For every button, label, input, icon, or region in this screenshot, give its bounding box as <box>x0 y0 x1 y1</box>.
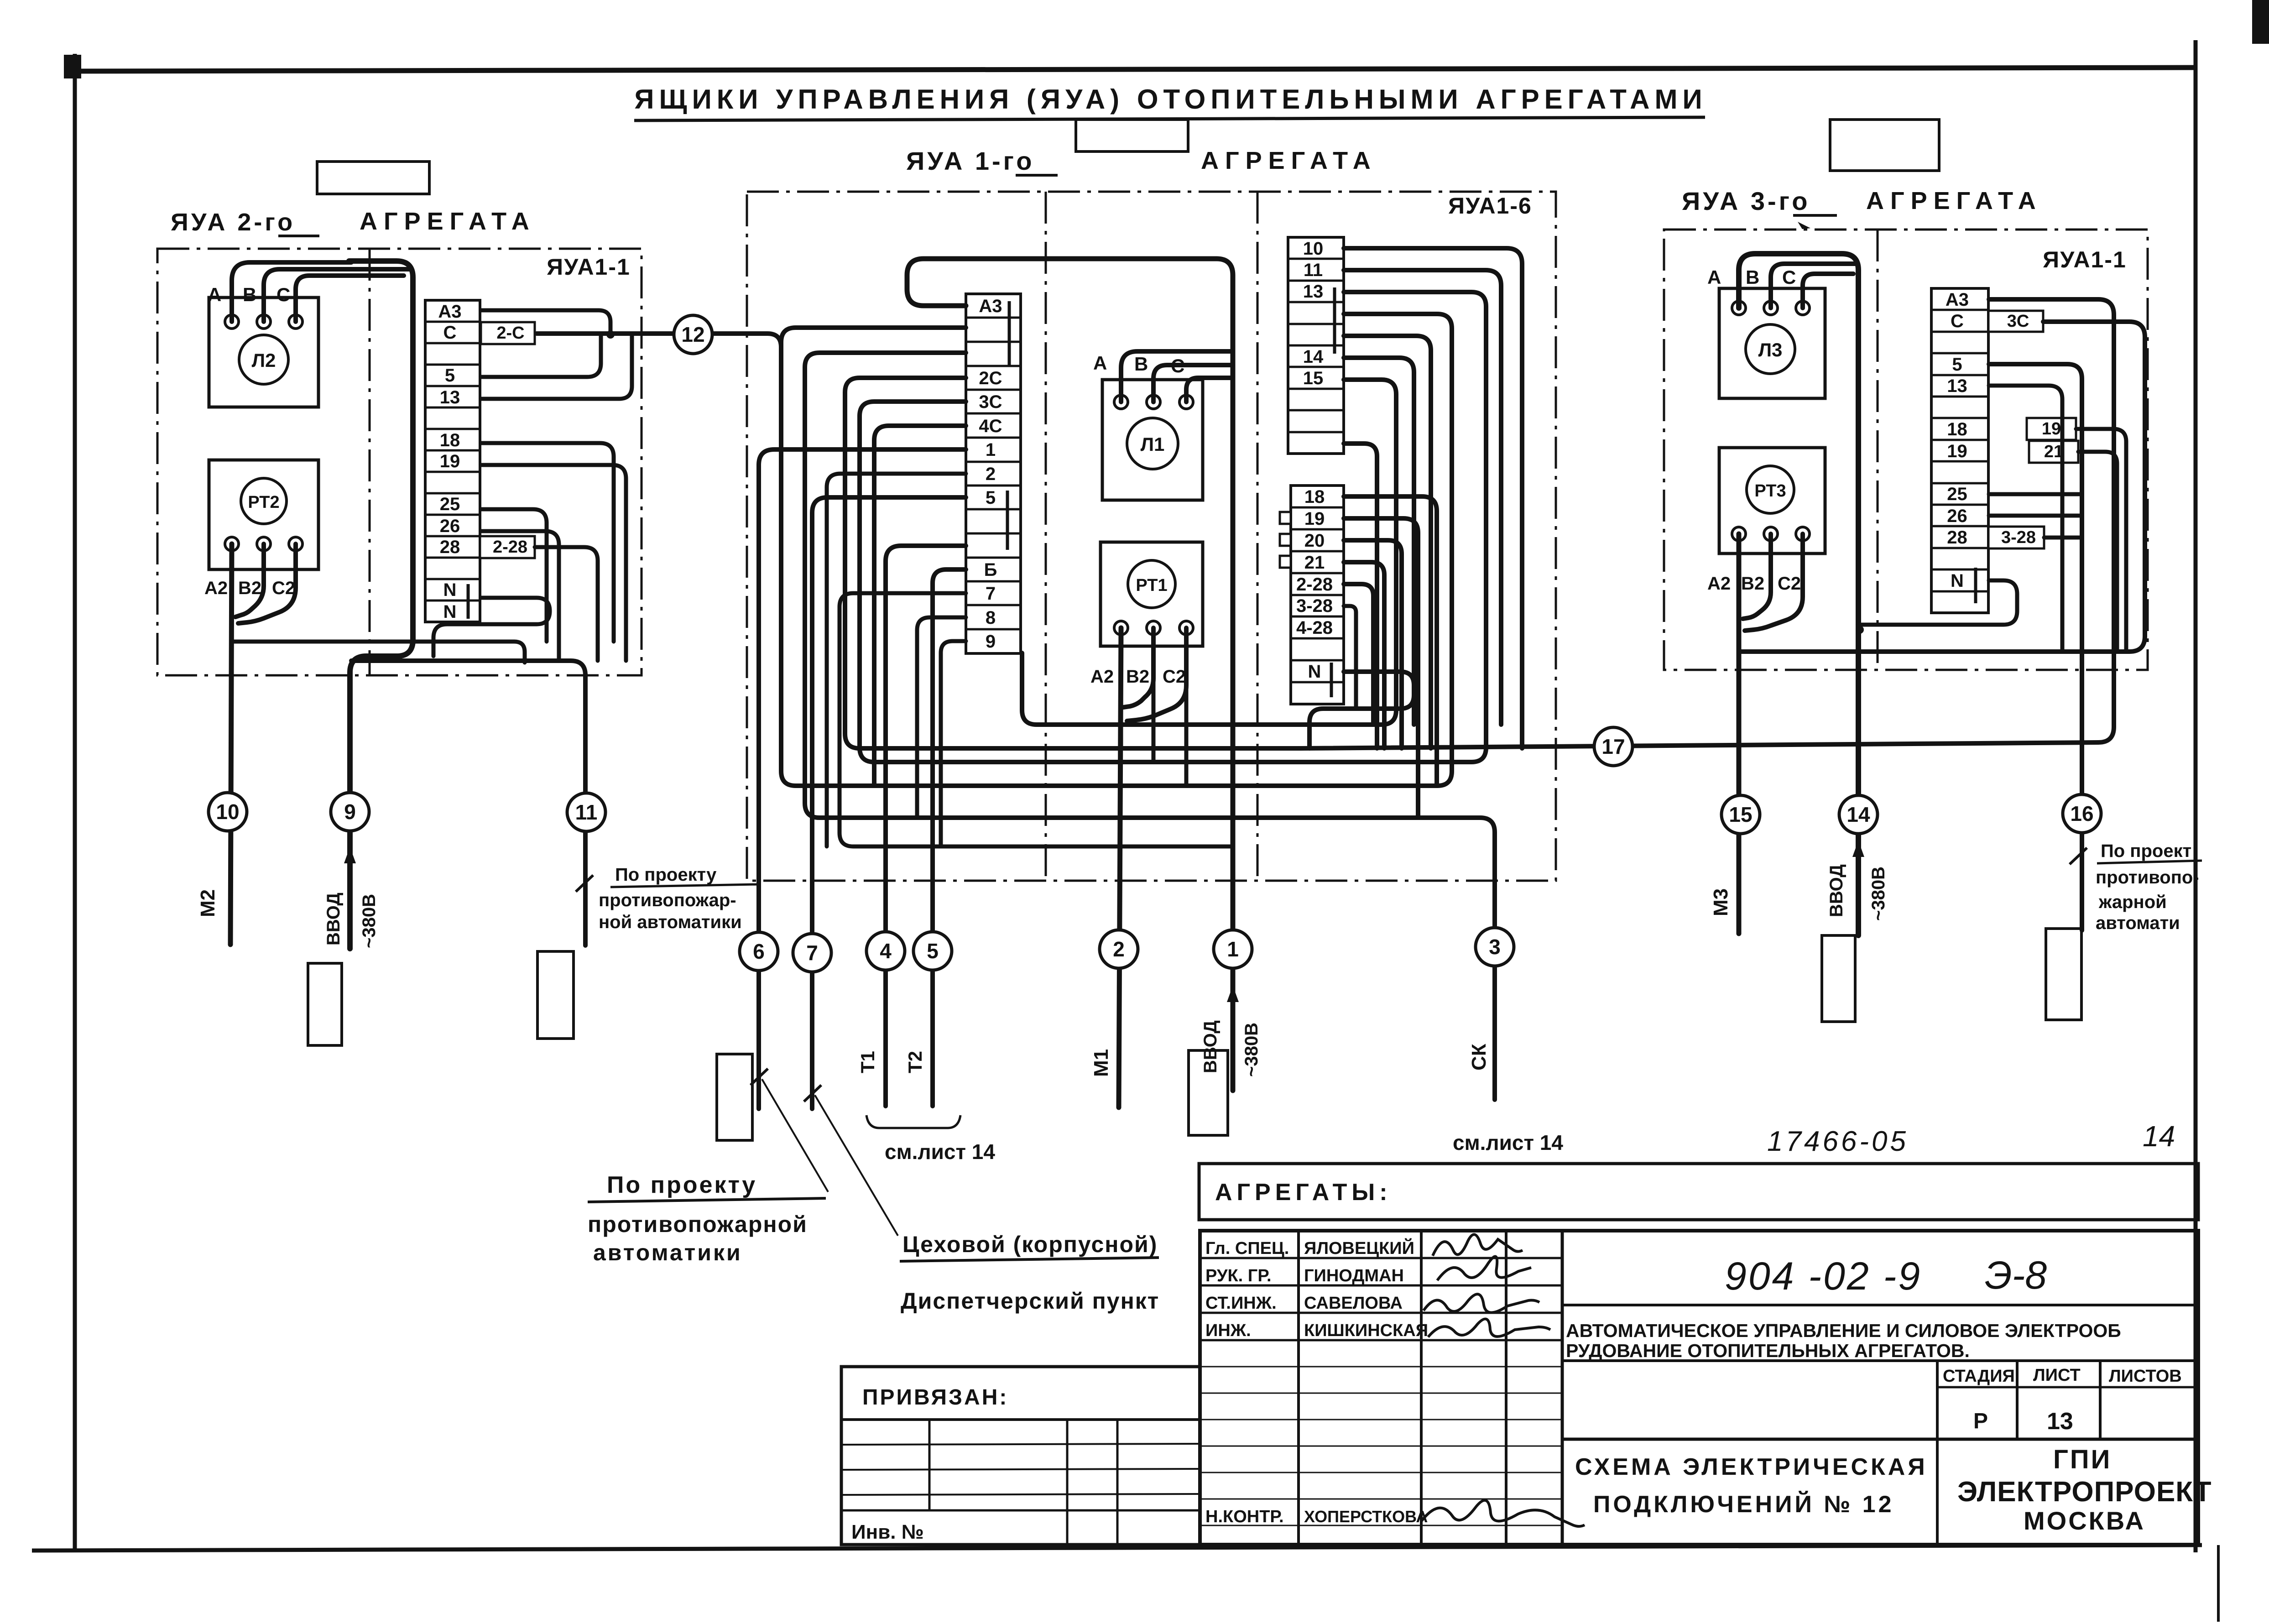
break mark on cable 6 <box>751 1069 768 1085</box>
svg-text:ЯУА 2-го: ЯУА 2-го <box>171 209 295 236</box>
svg-text:18: 18 <box>1304 487 1325 507</box>
title block thin row line 6 <box>1200 1499 1562 1500</box>
stadia header underline <box>1937 1386 2198 1389</box>
svg-text:17: 17 <box>1601 735 1625 758</box>
title block vline names <box>1420 1231 1423 1545</box>
pin A of Л1 <box>1114 395 1128 409</box>
contactor Л3 symbol <box>1746 324 1795 374</box>
svg-text:С: С <box>443 323 457 343</box>
svg-text:ХОПЕРСТКОВА: ХОПЕРСТКОВА <box>1304 1507 1428 1526</box>
note bottom-left underline <box>588 1198 826 1202</box>
underline го (left) <box>278 235 319 237</box>
title block hline 3 <box>1562 1438 2198 1441</box>
wire row 20 down to bus 17 <box>1344 540 1402 748</box>
svg-text:28: 28 <box>440 537 460 557</box>
svg-text:С: С <box>1782 266 1796 288</box>
break mark on cable 16 <box>2070 848 2087 864</box>
wire row 19 down to bus H3 <box>1344 518 1418 818</box>
svg-text:ЛИСТ: ЛИСТ <box>2033 1366 2081 1385</box>
title block thin row line 2 <box>1200 1393 1562 1394</box>
wire row 11 down to bus 1588 <box>1344 270 1501 725</box>
wire bus H3: middle row 3 down, right, into cable 3 <box>805 353 1495 1100</box>
svg-text:N: N <box>1308 662 1321 682</box>
wire 21 box down to bus 1428 <box>2078 452 2117 652</box>
svg-text:9: 9 <box>344 800 356 824</box>
wire riser to РТ1 pin B2 from bus y1670 <box>1152 680 1156 762</box>
svg-text:26: 26 <box>1947 506 1967 526</box>
svg-text:5: 5 <box>445 366 455 386</box>
title block outer <box>1200 1231 2198 1545</box>
title block thin row line 7 <box>1200 1525 1562 1526</box>
signature 1 <box>1433 1234 1523 1256</box>
wire left row 13 up to cable 12 line <box>481 336 632 399</box>
svg-text:А: А <box>1093 352 1107 374</box>
svg-text:В2: В2 <box>1126 667 1149 687</box>
title block thin row line 4 <box>1200 1446 1562 1447</box>
wire row 2-28 down to bus 1588 <box>1344 584 1373 725</box>
svg-text:6: 6 <box>753 940 765 963</box>
svg-text:12: 12 <box>681 323 704 346</box>
pin C of Л3 <box>1796 301 1810 315</box>
ПРИВЯЗАН vline 1 <box>928 1420 931 1510</box>
pin B2 of РТ1 <box>1147 621 1160 635</box>
svg-text:ЭЛЕКТРОПРОЕКТ: ЭЛЕКТРОПРОЕКТ <box>1957 1476 2212 1508</box>
svg-text:2-28: 2-28 <box>493 538 527 557</box>
svg-text:26: 26 <box>440 516 460 536</box>
relay РТ1 symbol <box>1128 560 1175 608</box>
svg-text:3-28: 3-28 <box>2001 528 2036 547</box>
svg-text:14: 14 <box>2143 1120 2175 1153</box>
wire Л3 pin C to supply bus <box>1803 274 1853 308</box>
feed arrow cable 14 <box>1852 841 1864 857</box>
svg-text:Диспетчерский пункт: Диспетчерский пункт <box>901 1288 1159 1314</box>
pin A2 of РТ3 <box>1732 527 1746 541</box>
pin B of Л2 <box>257 315 271 329</box>
pin C of Л2 <box>289 315 303 329</box>
wire riser to РТ1 pin A2 from bus 17 <box>1119 680 1123 748</box>
thermal relay РТ1 box <box>1101 542 1203 646</box>
svg-text:Инв. №: Инв. № <box>851 1521 924 1543</box>
svg-text:N: N <box>443 580 457 600</box>
cable marker 6 <box>740 932 778 971</box>
wire row 18 down to bus H2 <box>1344 496 1437 786</box>
wire left row 25 down to bus y1406 <box>481 509 547 642</box>
cable marker 10 <box>209 793 247 831</box>
wire 2-28 box down to bus y1448 <box>535 547 598 661</box>
wire right N row to cable 14 riser <box>1858 580 2017 625</box>
svg-text:8: 8 <box>986 608 996 628</box>
stamp placeholder 6 <box>2046 929 2081 1020</box>
underline го (right) <box>1793 214 1837 217</box>
pin B2 of РТ2 <box>257 537 271 551</box>
pin A2 of РТ2 <box>225 537 239 551</box>
svg-text:13: 13 <box>2047 1408 2073 1435</box>
svg-text:5: 5 <box>1952 355 1962 375</box>
svg-text:~380В: ~380В <box>1241 1023 1262 1077</box>
svg-text:ГПИ: ГПИ <box>2053 1445 2112 1474</box>
svg-text:11: 11 <box>575 800 598 824</box>
wire left row 5 up to cable 12 line <box>481 334 601 377</box>
title block name row line 3 <box>1200 1312 1562 1314</box>
svg-text:противопо-: противопо- <box>2096 867 2199 888</box>
scan blob top-right corner <box>2252 0 2269 44</box>
pin A of Л2 <box>225 315 239 329</box>
frame bottom border <box>32 1545 2202 1551</box>
title block name row line 1 <box>1200 1257 1562 1259</box>
wire Л1 pin B stem to bundle <box>1153 365 1233 402</box>
contact bump row 21 <box>1280 556 1291 568</box>
svg-text:ЯЩИКИ УПРАВЛЕНИЯ (ЯУА) ОТОП: ЯЩИКИ УПРАВЛЕНИЯ (ЯУА) ОТОПИТЕЛЬНЫМИ АГР… <box>634 84 1707 115</box>
wire РТ3 pin A2 down to cable 15 <box>1737 534 1742 934</box>
wire А3 top loop feeding vertical to cable 1 <box>907 259 1233 1091</box>
stamp placeholder 1 <box>308 963 342 1045</box>
svg-text:ЛИСТОВ: ЛИСТОВ <box>2109 1367 2182 1386</box>
cable marker 5 <box>913 932 952 970</box>
wire right row 13 down to bus 1428 <box>1989 386 2062 652</box>
wire РТ2 pin A2 down to cable 10 <box>230 544 232 945</box>
pin A of Л3 <box>1732 301 1746 315</box>
svg-text:2: 2 <box>986 464 996 484</box>
junction dot N/14 <box>1856 626 1864 634</box>
stadia vline 2 <box>2099 1361 2102 1439</box>
svg-text:N: N <box>443 602 457 622</box>
svg-text:СК: СК <box>1468 1044 1490 1070</box>
empty label box right <box>1830 120 1939 171</box>
left cabinet divider (chain) <box>369 249 371 675</box>
svg-text:АГРЕГАТА: АГРЕГАТА <box>1201 147 1377 174</box>
svg-text:автомати: автомати <box>2096 913 2180 933</box>
pin C2 of РТ3 <box>1796 527 1810 541</box>
middle divider 1 (chain) <box>1045 192 1047 881</box>
svg-text:СТ.ИНЖ.: СТ.ИНЖ. <box>1205 1294 1277 1313</box>
note cable 16 underline <box>2097 861 2202 863</box>
tick mark N row (left strip) <box>467 584 470 619</box>
signature 2 <box>1437 1257 1531 1280</box>
svg-text:САВЕЛОВА: САВЕЛОВА <box>1304 1294 1403 1313</box>
svg-text:7: 7 <box>986 584 996 604</box>
svg-text:см.лист 14: см.лист 14 <box>885 1140 995 1164</box>
svg-text:15: 15 <box>1729 803 1752 826</box>
svg-text:25: 25 <box>1947 484 1967 504</box>
wire Л1 pin A stem to bundle <box>1121 351 1233 402</box>
empty label box left <box>317 162 429 194</box>
svg-text:ЯУА1-6: ЯУА1-6 <box>1448 193 1532 219</box>
pin A2 of РТ1 <box>1114 621 1128 635</box>
title block hline 2 <box>1562 1359 2198 1362</box>
svg-text:Э-8: Э-8 <box>1985 1253 2047 1297</box>
svg-text:В: В <box>1746 266 1759 288</box>
svg-text:КИШКИНСКАЯ: КИШКИНСКАЯ <box>1304 1321 1428 1340</box>
svg-text:13: 13 <box>1303 282 1324 302</box>
svg-text:По проекту: По проекту <box>615 865 717 885</box>
cable marker 14 <box>1839 795 1878 834</box>
wire middle row down to cable 4 <box>886 546 966 1106</box>
contactor Л2 box <box>209 298 318 407</box>
wire riser to РТ1 pin C2 from bus H2 <box>1184 680 1189 786</box>
svg-text:21: 21 <box>1304 553 1325 573</box>
svg-text:СХЕМА ЭЛЕКТРИЧЕСКАЯ: СХЕМА ЭЛЕКТРИЧЕСКАЯ <box>1575 1454 1928 1480</box>
cable marker 3 <box>1476 928 1514 966</box>
svg-text:РТ3: РТ3 <box>1754 481 1786 501</box>
wire middle row 4С into bus H2 <box>874 426 966 786</box>
title block thin row line 3 <box>1200 1419 1562 1420</box>
svg-text:А3: А3 <box>438 302 461 322</box>
svg-text:11: 11 <box>1304 260 1323 280</box>
title block thin row line 5 <box>1200 1472 1562 1473</box>
svg-text:19: 19 <box>1947 441 1967 461</box>
wire Л2 pin C to supply bus <box>296 276 404 322</box>
svg-text:ЯУА1-1: ЯУА1-1 <box>547 254 631 280</box>
svg-text:АВТОМАТИЧЕСКОЕ УПРАВЛЕНИЕ И СИ: АВТОМАТИЧЕСКОЕ УПРАВЛЕНИЕ И СИЛОВОЕ ЭЛЕК… <box>1566 1320 2121 1341</box>
stadia vline 0 <box>1936 1361 1939 1545</box>
wire left row 19 down to bus y1448 <box>481 465 626 661</box>
right cabinet divider (chain) <box>1877 230 1879 670</box>
svg-text:СТАДИЯ: СТАДИЯ <box>1943 1367 2015 1386</box>
svg-text:1: 1 <box>1227 937 1239 961</box>
svg-text:М2: М2 <box>197 889 219 917</box>
svg-text:РТ2: РТ2 <box>248 493 279 512</box>
svg-text:С2: С2 <box>272 578 295 598</box>
svg-text:4С: 4С <box>979 416 1002 436</box>
svg-text:10: 10 <box>1303 239 1324 259</box>
svg-text:15: 15 <box>1303 368 1324 388</box>
cable marker 16 <box>2063 794 2101 833</box>
feed arrow cable 1 <box>1227 986 1239 1002</box>
svg-text:7: 7 <box>806 941 818 965</box>
wire left row 18 down to bus y1406 <box>481 443 614 642</box>
wire РТ1 pin A2 down to cable 2 <box>1119 628 1121 1107</box>
wire middle row 9 stub down <box>941 641 966 846</box>
svg-text:ВВОД: ВВОД <box>1200 1020 1221 1073</box>
middle cabinet boundary ЯУА-1 (chain) <box>747 192 1556 881</box>
svg-text:ной автоматики: ной автоматики <box>599 912 742 932</box>
pin C2 of РТ2 <box>289 537 303 551</box>
svg-text:По проекту: По проекту <box>607 1172 757 1198</box>
feed arrow cable 9 <box>344 847 356 863</box>
break mark on cable 7 <box>804 1085 821 1102</box>
terminal strip ЯУА1-1 right <box>1931 288 1988 613</box>
wire row 21 down to bus 17 <box>1344 562 1384 748</box>
relay РТ3 symbol <box>1747 466 1794 513</box>
terminal strip ЯУА1-6 upper <box>1288 237 1344 454</box>
wire РТ1 pin C2 join bundle <box>1127 628 1186 721</box>
ПРИВЯЗАН row line 3 <box>841 1494 1200 1495</box>
wire bus y1406 from cable10 riser <box>234 642 525 663</box>
svg-text:ИНЖ.: ИНЖ. <box>1205 1321 1251 1340</box>
svg-text:2: 2 <box>1113 937 1125 961</box>
terminal side box 2-С <box>481 322 535 344</box>
ПРИВЯЗАН table outer <box>841 1367 1200 1545</box>
pin B of Л1 <box>1147 395 1160 409</box>
pin B of Л3 <box>1764 301 1778 315</box>
svg-text:3С: 3С <box>979 392 1002 412</box>
title block vline roles <box>1297 1231 1300 1545</box>
contactor Л2 symbol <box>239 335 288 384</box>
wire Л3 pin A supply bus down to cable 14 <box>1739 254 1858 935</box>
ПРИВЯЗАН row line 2 <box>841 1469 1200 1470</box>
svg-text:Цеховой (корпусной): Цеховой (корпусной) <box>902 1232 1158 1257</box>
svg-text:С: С <box>276 284 290 305</box>
svg-text:Т2: Т2 <box>904 1051 926 1073</box>
cable marker 17 <box>1594 727 1633 766</box>
svg-text:В2: В2 <box>238 578 261 598</box>
wire middle row 8 stub down <box>917 617 966 818</box>
stamp placeholder 4 <box>1189 1050 1228 1135</box>
terminal side box 2-28 <box>480 536 535 558</box>
svg-text:4-28: 4-28 <box>1296 618 1333 638</box>
wire left N row loop to cable9 corner <box>433 598 550 656</box>
contact bump row 20 <box>1280 534 1291 546</box>
cable marker 4 <box>866 932 905 970</box>
tick mark 5 row (middle strip) <box>1006 491 1009 550</box>
wire РТ2 pin C2 join bundle <box>238 544 296 623</box>
svg-text:Л3: Л3 <box>1758 339 1783 360</box>
signature 4 <box>1428 1319 1550 1337</box>
wire row 3-28 stub <box>1344 606 1356 709</box>
svg-text:противопожарной: противопожарной <box>588 1211 808 1237</box>
contactor Л1 symbol <box>1127 418 1178 469</box>
svg-text:17466-05: 17466-05 <box>1767 1126 1909 1157</box>
ПРИВЯЗАН vline 3 <box>1116 1420 1119 1545</box>
wire Л3 pin B to supply bus <box>1771 264 1856 308</box>
svg-text:Р: Р <box>1973 1409 1988 1433</box>
svg-text:10: 10 <box>216 800 239 824</box>
wire left row 26 down to bus y1448 <box>481 531 559 661</box>
wire 19 box down to bus 1428 <box>2076 429 2126 652</box>
terminal side box 21 <box>2029 441 2078 463</box>
svg-text:19: 19 <box>440 451 460 471</box>
svg-text:А3: А3 <box>979 296 1002 316</box>
svg-text:~380В: ~380В <box>359 894 379 948</box>
svg-text:904 -02 -9: 904 -02 -9 <box>1725 1254 1922 1298</box>
svg-text:25: 25 <box>440 494 460 514</box>
svg-text:18: 18 <box>1947 419 1967 439</box>
wire bus H2: middle row 2 down and right to ЯУА1-6 row 4 <box>781 314 1452 786</box>
thermal relay РТ3 box <box>1719 448 1825 554</box>
svg-text:~380В: ~380В <box>1868 867 1888 921</box>
relay РТ2 symbol <box>241 478 287 524</box>
wire left strip А3 row join cable 12 line <box>481 310 610 334</box>
svg-text:А2: А2 <box>1707 574 1731 594</box>
wire bus y1448 to cable 11 <box>351 661 585 945</box>
note cable 11 underline <box>610 884 758 887</box>
signature 3 <box>1424 1294 1539 1312</box>
wire row blank5 down to bus 17 <box>1344 336 1431 748</box>
svg-text:1: 1 <box>986 440 996 460</box>
svg-text:19: 19 <box>2042 419 2061 439</box>
wire Л2 pin A to supply bus <box>232 262 351 322</box>
svg-text:М3: М3 <box>1710 888 1732 916</box>
title underline <box>634 117 1705 120</box>
tick mark N row (right strip) <box>1974 568 1977 603</box>
wire РТ3 pin B2 join bundle <box>1743 534 1771 619</box>
svg-text:АГРЕГАТА: АГРЕГАТА <box>360 208 536 235</box>
ПРИВЯЗАН row line 1 <box>841 1444 1200 1445</box>
leader line cable 6 to note <box>762 1079 828 1192</box>
svg-text:А2: А2 <box>1090 667 1114 687</box>
cable marker 12 <box>674 315 712 354</box>
svg-text:13: 13 <box>440 387 460 407</box>
title block name row line 2 <box>1200 1285 1562 1287</box>
terminal strip ЯУА1-6 lower <box>1291 486 1344 704</box>
svg-text:20: 20 <box>1304 531 1325 551</box>
underline го (middle) <box>1016 174 1058 177</box>
tick mark 13 row (ЯУА1-6) <box>1333 287 1336 354</box>
svg-text:М1: М1 <box>1090 1049 1112 1077</box>
terminal side box 19 <box>2027 418 2076 440</box>
svg-text:А: А <box>1707 266 1721 288</box>
terminal strip ЯУА1-1 left <box>425 300 480 622</box>
terminal side box 3С <box>1988 311 2043 332</box>
svg-text:Н.КОНТР.: Н.КОНТР. <box>1205 1507 1284 1526</box>
svg-text:В2: В2 <box>1741 574 1764 594</box>
wire 3С box bus down-left to РТ3 bundle <box>1740 322 2145 652</box>
svg-text:18: 18 <box>440 430 460 450</box>
note dispatcher underline <box>900 1258 1159 1261</box>
svg-text:ЯУА 3-го: ЯУА 3-го <box>1682 187 1810 215</box>
svg-text:С2: С2 <box>1163 667 1186 687</box>
title block name row line 4 <box>1200 1339 1562 1342</box>
wire 3-28 box to cable 16 riser <box>2044 536 2082 540</box>
wire РТ3 pin C2 join bundle <box>1745 534 1803 631</box>
svg-text:2С: 2С <box>979 368 1002 388</box>
ПРИВЯЗАН row line 4 <box>841 1509 1200 1512</box>
svg-text:3: 3 <box>1489 935 1501 959</box>
frame top border <box>73 68 2196 71</box>
title block hline 1 <box>1562 1304 2198 1306</box>
stamp placeholder 5 <box>1822 935 1855 1022</box>
tick mark N row (ЯУА1-6 lower) <box>1330 663 1333 697</box>
middle divider 2 (chain) <box>1257 192 1259 881</box>
svg-text:С: С <box>1951 311 1964 331</box>
svg-text:ВВОД: ВВОД <box>323 893 344 945</box>
wire row 10 down to bus 17 <box>1344 248 1522 748</box>
wire right row 26 to cable 16 riser <box>1989 514 2082 518</box>
svg-text:14: 14 <box>1303 347 1324 367</box>
pin B2 of РТ3 <box>1764 527 1778 541</box>
svg-text:19: 19 <box>1304 509 1325 529</box>
svg-text:Б: Б <box>984 560 997 580</box>
svg-text:РУК. ГР.: РУК. ГР. <box>1205 1266 1272 1285</box>
stamp placeholder 3 <box>717 1054 752 1140</box>
svg-text:РТ1: РТ1 <box>1136 576 1167 595</box>
wire Л1 pin C stem to bundle <box>1186 378 1233 402</box>
pin C2 of РТ1 <box>1179 621 1193 635</box>
wire middle row Б down to cable 5 <box>933 569 966 1106</box>
svg-text:N: N <box>1951 571 1964 591</box>
svg-text:ЯЛОВЕЦКИЙ: ЯЛОВЕЦКИЙ <box>1304 1238 1414 1258</box>
pin C of Л1 <box>1179 395 1193 409</box>
svg-text:3С: 3С <box>2007 312 2029 331</box>
ПРИВЯЗАН header divider <box>841 1418 1200 1421</box>
wire right row 5 down to cable 16 <box>1989 364 2082 930</box>
wire РТ1 pin B2 join bundle <box>1123 628 1153 707</box>
wire row blank10 down to bus 17 <box>1344 444 1377 748</box>
tick mark А3 row (middle strip) <box>1008 301 1011 365</box>
svg-text:АГРЕГАТА: АГРЕГАТА <box>1866 187 2042 214</box>
svg-text:А3: А3 <box>1946 290 1969 310</box>
signature Н.контр <box>1421 1500 1585 1526</box>
svg-text:В: В <box>1134 353 1148 375</box>
svg-text:2-28: 2-28 <box>1296 574 1333 595</box>
svg-text:А: А <box>208 284 221 305</box>
thermal relay РТ2 box <box>209 460 318 569</box>
svg-text:ГИНОДМАН: ГИНОДМАН <box>1304 1266 1404 1285</box>
wire bus H4 row 7 to cable 1 riser <box>840 593 1233 846</box>
svg-text:ВВОД: ВВОД <box>1826 864 1846 917</box>
title block thin row line 1 <box>1200 1366 1562 1368</box>
cable marker 11 <box>567 793 605 831</box>
